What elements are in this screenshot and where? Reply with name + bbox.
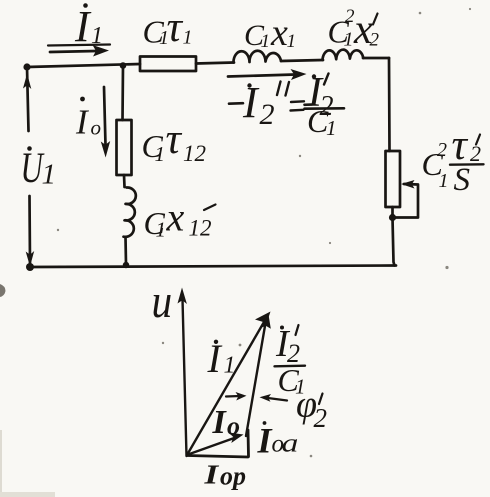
svg-text:S: S	[454, 162, 471, 198]
svg-text:I: I	[74, 2, 92, 51]
svg-text:1: 1	[42, 159, 57, 191]
svg-text:2: 2	[314, 403, 328, 433]
vector I1	[187, 322, 264, 455]
svg-text:1: 1	[326, 116, 337, 140]
arrowhead left-rail up	[23, 74, 31, 90]
inductor C1^2x2'	[323, 50, 364, 60]
phasor diagram	[183, 299, 288, 457]
angle arrow left shaft	[264, 398, 287, 401]
node right	[389, 214, 396, 221]
node top-left	[23, 63, 30, 70]
arrowhead I1	[93, 45, 110, 57]
wire top middle	[196, 63, 234, 64]
wire right rail upper	[388, 58, 391, 151]
angle arrow right shaft	[226, 395, 240, 398]
svg-text:1: 1	[183, 27, 193, 49]
I1 label underline	[48, 45, 110, 46]
arrowhead left-rail down	[26, 251, 35, 267]
svg-text:op: op	[220, 462, 246, 491]
I1 arrow line	[50, 51, 96, 52]
svg-text:12: 12	[189, 216, 212, 241]
label Ioa	[263, 421, 267, 425]
u axis	[183, 299, 187, 456]
label -I2'' = -	[229, 102, 243, 105]
wire coil2 to top-right corner	[363, 57, 389, 60]
-I2'' arrow line	[228, 75, 295, 77]
svg-text:2: 2	[370, 30, 380, 51]
svg-text:1: 1	[91, 23, 103, 49]
svg-text:1: 1	[287, 31, 297, 52]
wire between coils	[281, 60, 323, 61]
svg-text:τ: τ	[166, 116, 183, 163]
wire right rail lower	[393, 207, 395, 266]
svg-text:I: I	[203, 459, 220, 489]
wire top left horizontal	[27, 64, 140, 67]
arrowhead angle-left tip	[260, 394, 272, 402]
segment Ioa	[247, 430, 250, 457]
svg-text:o: o	[91, 116, 102, 140]
edge smudge left	[0, 284, 6, 297]
svg-text:x: x	[166, 195, 185, 240]
wire middle branch lower	[124, 237, 127, 264]
svg-text:1: 1	[155, 142, 166, 166]
arrowhead -I2''	[291, 69, 307, 80]
arrowhead I0 tip	[229, 433, 244, 444]
svg-text:2: 2	[260, 98, 275, 131]
wire middle branch short	[123, 175, 126, 187]
node bottom-left	[26, 263, 34, 271]
wire left rail lower	[28, 196, 31, 263]
svg-text:I: I	[212, 404, 228, 441]
svg-text:x: x	[270, 12, 288, 54]
bracket feedback line	[395, 184, 418, 218]
vector I2'/C1	[246, 323, 266, 436]
svg-text:2: 2	[437, 139, 447, 161]
label I0 (circuit)	[80, 97, 85, 102]
svg-text:1: 1	[224, 353, 236, 379]
svg-text:o: o	[227, 412, 240, 441]
wire middle branch upper	[121, 66, 124, 121]
svg-text:12: 12	[183, 141, 206, 166]
node bottom-middle	[123, 262, 129, 268]
wire bottom	[30, 266, 396, 268]
resistor C1r1	[140, 57, 196, 72]
segment Iop	[188, 456, 249, 458]
resistor C1^2 r2'/S	[386, 151, 401, 207]
svg-text:1: 1	[439, 170, 449, 192]
inductor C1x12	[124, 187, 136, 236]
svg-text:1: 1	[156, 218, 167, 242]
vector I0	[188, 437, 237, 455]
inductor C1x1	[233, 51, 281, 63]
svg-text:a: a	[282, 428, 299, 457]
svg-text:u: u	[152, 274, 173, 328]
resistor C1r12	[117, 120, 132, 175]
I0 arrow line	[104, 87, 106, 145]
svg-text:τ: τ	[167, 4, 184, 51]
arrowhead bracket left	[401, 180, 415, 189]
arrowhead I2 tip	[261, 315, 271, 329]
arrowhead u axis	[178, 288, 187, 305]
wire left rail upper	[27, 67, 29, 131]
node top-middle	[120, 62, 127, 69]
svg-text:1: 1	[344, 29, 354, 51]
arrowhead I0 down	[101, 141, 110, 158]
svg-text:1: 1	[261, 31, 271, 52]
arrowhead I1 tip	[255, 312, 271, 330]
arrowhead angle-right tip	[236, 392, 247, 401]
